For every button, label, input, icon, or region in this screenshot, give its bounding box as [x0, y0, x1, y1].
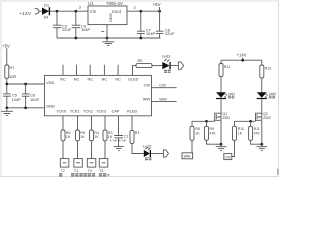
svg-text:R4: R4 — [94, 131, 99, 135]
svg-text:1K: 1K — [195, 131, 200, 135]
svg-text:CW: CW — [159, 83, 166, 88]
svg-text:R6: R6 — [66, 131, 71, 135]
resistor R7 10R — [5, 65, 17, 79]
node junction gate R11 — [249, 120, 252, 123]
svg-text:+5V: +5V — [153, 2, 161, 7]
wire Led1 to Q1 drain — [220, 99, 222, 114]
wire R9 to ground node — [207, 140, 222, 144]
svg-text:CW: CW — [144, 84, 151, 88]
svg-text:GLED: GLED — [128, 78, 139, 82]
svg-text:NC: NC — [87, 78, 93, 82]
wire Led4 to Q2 drain — [261, 99, 263, 114]
wire R5 to switch T1 — [77, 141, 79, 159]
svg-text:22UF: 22UF — [165, 31, 175, 36]
svg-text:R7: R7 — [10, 65, 15, 70]
svg-text:U1: U1 — [88, 1, 94, 6]
node junction gnd C5 — [5, 106, 8, 109]
wire Q2 gate net — [235, 120, 256, 121]
svg-text:+5V: +5V — [2, 44, 10, 49]
ground symbol C1 — [114, 147, 124, 151]
node junction C6 tap — [24, 83, 27, 86]
wire R11 to ground node — [251, 140, 262, 144]
node GLED output port — [178, 62, 183, 69]
svg-text:R1: R1 — [135, 131, 140, 135]
wire R7 to VDD rail — [7, 78, 45, 84]
svg-text:T1: T1 — [74, 169, 78, 173]
wire Led3 to port — [171, 65, 179, 67]
svg-text:NC: NC — [115, 78, 121, 82]
capacitor C3 — [53, 11, 72, 38]
wire U1 GND pin down — [106, 25, 108, 38]
svg-text:2302: 2302 — [223, 116, 231, 120]
node junction C3 tap — [56, 10, 59, 13]
wire R4 to switch T4 — [91, 141, 93, 159]
svg-text:R13: R13 — [265, 67, 272, 71]
node junction C8 tap / +5V — [158, 10, 161, 13]
node junction gnd C6 — [24, 106, 27, 109]
voltage regulator U1 7805 — [88, 1, 127, 25]
svg-text:NC: NC — [60, 78, 66, 82]
wire GLED net — [133, 66, 137, 76]
op-amp U2 controller IC — [45, 75, 152, 115]
svg-text:WW: WW — [143, 98, 151, 102]
capacitor C8 — [156, 11, 175, 38]
resistor R1 — [130, 130, 140, 143]
node junction source gnd — [220, 143, 223, 146]
wire TCK3 stub — [104, 116, 106, 130]
resistor R10 1K — [233, 126, 245, 140]
node junction gnd rail C4 — [74, 37, 77, 40]
svg-text:10UF: 10UF — [30, 97, 40, 102]
svg-text:10R: 10R — [9, 74, 16, 79]
node junction gate R9 — [205, 120, 208, 123]
resistor R3 1K — [103, 130, 113, 141]
wire gate to R9 — [206, 121, 208, 126]
transistor Q2 — [256, 112, 271, 120]
wire CAP stub — [118, 116, 120, 136]
svg-text:RLED: RLED — [127, 110, 137, 114]
page background — [0, 0, 280, 178]
node junction +14V — [241, 59, 244, 62]
wire TCK1 stub — [77, 116, 79, 130]
svg-text:104P: 104P — [81, 27, 90, 32]
wire R13 to Led4 — [261, 78, 263, 92]
resistor R5 1K — [76, 130, 86, 141]
resistor R9 47K — [205, 126, 217, 140]
svg-text:NC: NC — [102, 78, 108, 82]
svg-text:NC: NC — [74, 78, 80, 82]
wire RLED stub — [131, 116, 133, 131]
svg-text:1K: 1K — [94, 135, 99, 139]
wire D1 to U1 Vin — [50, 10, 88, 12]
capacitor C6 — [22, 84, 40, 108]
svg-text:22UF: 22UF — [62, 27, 72, 32]
wire CW pin — [152, 87, 177, 89]
svg-text:GND: GND — [108, 13, 113, 22]
wire WW pin — [152, 101, 177, 103]
power +5V mid-left — [2, 44, 10, 65]
node junction gnd rail C7 — [139, 37, 142, 40]
ground symbol top section — [102, 38, 114, 45]
svg-text:7805-3V: 7805-3V — [106, 1, 123, 6]
svg-text:104P: 104P — [146, 31, 155, 36]
svg-text:WW: WW — [159, 97, 167, 102]
svg-text:4.7uF~4.7uF: 4.7uF~4.7uF — [110, 139, 127, 143]
power +14V — [237, 53, 247, 61]
capacitor C7 — [137, 11, 155, 38]
wire R12 to Led1 — [220, 77, 222, 93]
node junction C4 tap — [74, 10, 77, 13]
wire input to D1 — [39, 10, 42, 12]
svg-text:T2: T2 — [61, 169, 65, 173]
wire gnd rail mid-left — [7, 107, 45, 109]
wire TCK0 stub — [62, 116, 64, 130]
svg-text:2302: 2302 — [263, 116, 271, 120]
switch T4 — [79, 159, 95, 177]
LED Led4 — [257, 92, 276, 99]
wire ground rail top section — [57, 37, 160, 39]
wire Q1 source to ground — [220, 121, 222, 144]
resistor R11 47K — [249, 126, 261, 140]
ground symbol mid-left — [1, 108, 13, 116]
node junction gnd rail U1 — [106, 37, 109, 40]
wire R2 to Led3 — [152, 65, 162, 67]
svg-text:1K: 1K — [80, 135, 85, 139]
svg-text:T3: T3 — [99, 169, 103, 173]
node RLED output port — [163, 150, 168, 157]
node CW net label box — [224, 154, 232, 160]
svg-text:Vin: Vin — [90, 9, 97, 14]
ground symbol Q2 — [257, 144, 268, 151]
svg-text:TCK3: TCK3 — [96, 110, 106, 114]
svg-text:+12V: +12V — [19, 11, 32, 17]
svg-text:47K: 47K — [254, 131, 261, 135]
svg-text:+14V: +14V — [237, 53, 247, 58]
wire R3 to switch T3 — [104, 141, 106, 159]
svg-text:VDD: VDD — [46, 80, 55, 85]
svg-text:T4: T4 — [88, 169, 92, 173]
wire Led2 to port — [151, 153, 163, 155]
wire gate to R11 — [250, 121, 252, 126]
svg-text:CAP: CAP — [112, 110, 120, 114]
wire Q2 source to ground — [261, 121, 263, 144]
LED Led3 — [162, 54, 171, 72]
switch T1 — [71, 159, 82, 177]
node +12V input port — [19, 8, 39, 17]
svg-text:WW: WW — [184, 155, 191, 159]
svg-text:S4: S4 — [44, 15, 50, 20]
LED Led1 — [216, 92, 235, 99]
svg-text:104P: 104P — [12, 97, 21, 102]
wire gate to R8 — [191, 121, 193, 126]
LED Led2 — [143, 145, 152, 161]
node WW net label box — [182, 153, 193, 159]
wire gate to R10 — [234, 121, 236, 126]
svg-text:TCK2: TCK2 — [83, 110, 93, 114]
svg-text:D1: D1 — [44, 2, 50, 7]
node junction C7 tap — [139, 10, 142, 13]
switch T2 — [59, 159, 69, 177]
svg-text:TCK0: TCK0 — [56, 110, 66, 114]
wire Q1 gate net — [192, 120, 215, 121]
resistor R6 1K — [61, 130, 71, 141]
node junction C5 tap — [5, 83, 8, 86]
pin dash U1 gnd — [101, 31, 104, 33]
power +5V — [153, 2, 161, 11]
svg-text:R3: R3 — [108, 131, 113, 135]
wire R1 to Led2 — [132, 144, 144, 154]
svg-text:1K: 1K — [238, 131, 243, 135]
node junction source2 gnd — [260, 143, 263, 146]
bottom right edge artifact — [277, 169, 279, 176]
svg-text:CW: CW — [225, 155, 232, 159]
switch T3 — [99, 159, 109, 177]
wire NC pin stubs — [63, 65, 118, 76]
wire R10 to CW label — [232, 140, 235, 156]
svg-text:1K: 1K — [66, 135, 71, 139]
resistor R13 — [260, 65, 272, 78]
resistor R4 1K — [90, 130, 100, 141]
wire R8 to WW label — [191, 140, 193, 155]
wire R6 to switch T2 — [62, 141, 64, 159]
capacitor C1 — [110, 135, 129, 147]
transistor Q1 — [215, 112, 230, 120]
capacitor C4 — [72, 11, 91, 38]
ground symbol Q1 — [216, 144, 227, 151]
wire +14V rail — [221, 60, 262, 65]
svg-text:R12: R12 — [224, 65, 231, 69]
resistor R8 1K — [190, 126, 200, 140]
resistor R2 — [136, 58, 152, 68]
svg-text:R2: R2 — [138, 58, 143, 63]
svg-text:Led3: Led3 — [162, 54, 170, 58]
svg-text:TCK1: TCK1 — [70, 110, 80, 114]
svg-text:GND: GND — [46, 103, 55, 108]
svg-text:47K: 47K — [210, 131, 217, 135]
diode D1 — [42, 2, 50, 19]
wire TCK2 stub — [91, 116, 93, 130]
svg-text:R5: R5 — [80, 131, 85, 135]
capacitor C5 — [3, 84, 21, 108]
wire U1 Vout to +5V rail — [127, 10, 160, 12]
resistor R12 — [219, 64, 231, 77]
